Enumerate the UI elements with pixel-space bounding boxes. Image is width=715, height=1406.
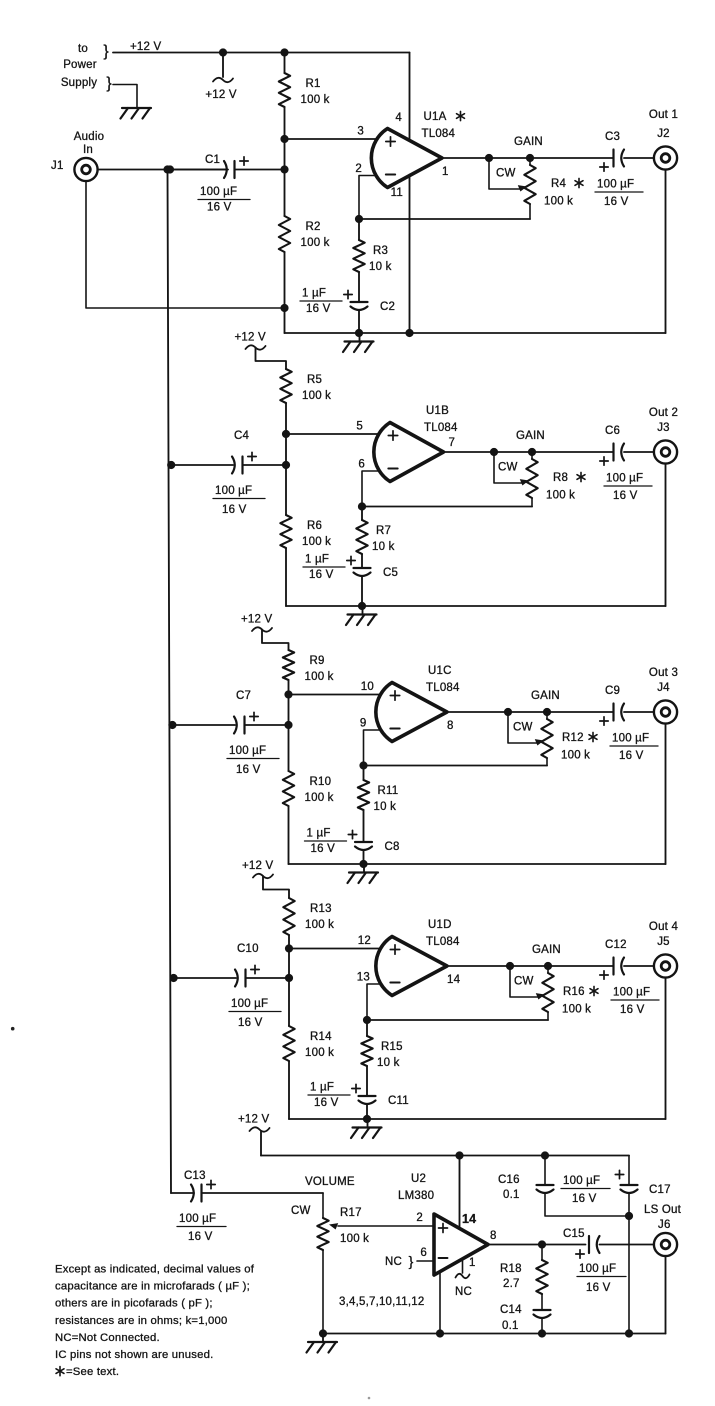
svg-text:J5: J5 [657, 936, 670, 948]
junction: pot top [528, 448, 536, 456]
svg-text:CW: CW [498, 462, 518, 474]
wire: audio input bus (vertical) [168, 170, 172, 1194]
svg-text:R9: R9 [310, 655, 325, 667]
wire: C7 to node [245, 724, 289, 726]
junction: C16/C17 node [625, 1212, 633, 1220]
junction: feedback node [355, 215, 363, 223]
op-amp U1D (TL084) [376, 937, 447, 996]
svg-text:resistances are in ohms; k=1,0: resistances are in ohms; k=1,000 [55, 1315, 228, 1327]
svg-text:10 k: 10 k [374, 801, 397, 813]
+12V tap (stage 4) [253, 874, 273, 878]
junction: C14 at ground rail [538, 1329, 546, 1337]
junction: bus to C4 [167, 461, 175, 469]
svg-text:C2: C2 [380, 301, 395, 313]
svg-text:R7: R7 [376, 525, 391, 537]
svg-text:8: 8 [490, 1230, 497, 1242]
junction: wiper tie [506, 962, 514, 970]
wire: + input of U1C [289, 694, 385, 696]
polarity + of C6 [600, 460, 608, 462]
svg-text:100 k: 100 k [340, 1233, 369, 1245]
svg-text:C5: C5 [383, 567, 398, 579]
svg-text:U1C: U1C [428, 665, 452, 677]
svg-text:100 k: 100 k [544, 196, 573, 208]
svg-text:100 k: 100 k [562, 1004, 591, 1016]
svg-text:R11: R11 [378, 785, 399, 797]
wire: +12V tap to R9 [262, 630, 289, 651]
svg-text:CW: CW [496, 168, 516, 180]
wiper of R12 [508, 712, 537, 743]
svg-text:NC=Not Connected.: NC=Not Connected. [55, 1332, 160, 1344]
svg-text:13: 13 [357, 972, 370, 984]
svg-text:100 µF: 100 µF [215, 485, 252, 497]
svg-text:+12 V: +12 V [241, 614, 273, 626]
wire: J6 return to ground rail [665, 1256, 667, 1334]
junction: R17 at ground rail [319, 1329, 327, 1337]
scan speck [368, 1397, 371, 1400]
svg-text:C12: C12 [605, 939, 627, 951]
jack J6 (LS Out) [654, 1233, 677, 1256]
wire: R1 to + input node [284, 107, 286, 139]
svg-text:3,4,5,7,10,11,12: 3,4,5,7,10,11,12 [339, 1296, 424, 1308]
wire: +12V tap to R5 [256, 348, 287, 370]
svg-text:100 k: 100 k [301, 237, 330, 249]
svg-text:Audio: Audio [74, 131, 104, 143]
wire: + input node down to C7 node [288, 695, 290, 726]
svg-text:NC: NC [385, 1256, 402, 1268]
svg-text:C17: C17 [649, 1184, 671, 1196]
wire: stage ground rail [289, 863, 666, 865]
svg-text:16 V: 16 V [314, 1097, 339, 1109]
svg-text:C10: C10 [237, 943, 259, 955]
wire: feedback node to R3 [358, 219, 360, 240]
op-amp U1A (TL084) [371, 129, 442, 188]
svg-text:C14: C14 [500, 1304, 522, 1316]
junction: bus to C10 [170, 974, 178, 982]
wire: R17 bottom to ground rail [322, 1250, 324, 1334]
svg-text:IC pins not shown are unused.: IC pins not shown are unused. [55, 1349, 213, 1361]
svg-text:Power: Power [63, 59, 97, 71]
svg-text:C9: C9 [605, 685, 620, 697]
wire: R14 down to ground rail [288, 1061, 290, 1119]
+12V tap (stage 3) [252, 627, 272, 631]
wire: ground stub to power supply [113, 85, 137, 108]
svg-text:16 V: 16 V [586, 1282, 611, 1294]
svg-text:Out 1: Out 1 [649, 109, 678, 121]
wire: output to C9 [547, 711, 614, 713]
svg-text:NC: NC [455, 1286, 472, 1298]
capacitor C8 (electrolytic) [355, 841, 372, 843]
wire: output to C12 [548, 965, 614, 967]
resistor R15 10 k [361, 1036, 372, 1066]
junction: C16 at rail [541, 1151, 549, 1159]
wire: - input of U1C [364, 730, 385, 766]
svg-text:In: In [83, 144, 93, 156]
wire: output to C3 [530, 157, 614, 159]
wire: J1 to C1 [97, 169, 228, 171]
wire: jack return [665, 464, 667, 606]
wire: C10 to node [246, 977, 290, 979]
svg-text:100 µF: 100 µF [229, 745, 266, 757]
svg-text:C11: C11 [388, 1095, 409, 1107]
svg-text:Supply: Supply [61, 77, 97, 89]
op-amp + symbol [386, 141, 395, 143]
svg-text:8: 8 [447, 720, 454, 732]
wire: - input of U1D [367, 984, 384, 1020]
svg-text:}: } [409, 1253, 414, 1269]
wire: R13 to + input node [288, 935, 290, 949]
wire: C2 to ground rail [358, 311, 360, 333]
wire: rail to R1 [284, 53, 286, 74]
wire: + input of U1D [289, 948, 384, 950]
wire: bus to C10 [174, 977, 236, 979]
svg-text:R8: R8 [553, 472, 568, 484]
wire: jack return [665, 724, 667, 864]
svg-text:=See text.: =See text. [66, 1366, 119, 1378]
junction: + input node [284, 690, 292, 698]
svg-text:J1: J1 [51, 160, 64, 172]
svg-text:1 µF: 1 µF [310, 1082, 334, 1094]
svg-text:}: } [106, 75, 112, 92]
svg-text:C16: C16 [498, 1174, 520, 1186]
svg-text:capacitance are in microfarads: capacitance are in microfarads ( µF ); [55, 1281, 250, 1293]
junction: C4 node [282, 461, 290, 469]
svg-text:TL084: TL084 [424, 422, 458, 434]
capacitor C6 (electrolytic) [612, 444, 614, 461]
svg-text:R4: R4 [551, 178, 567, 190]
wire: C11 to ground rail [366, 1105, 368, 1119]
polarity + of C7 [250, 716, 258, 718]
pin 1 NC stub [462, 1259, 464, 1273]
svg-text:11: 11 [391, 187, 403, 199]
junction: + input node [280, 135, 288, 143]
wire: - input of U1A [359, 176, 380, 220]
junction: + input node [282, 430, 290, 438]
ground symbol [363, 864, 365, 873]
wire: J1 sleeve down and right to ground node [86, 181, 285, 308]
polarity + of C12 [600, 974, 608, 976]
junction: wiper tie [485, 154, 493, 162]
svg-text:1 µF: 1 µF [305, 554, 329, 566]
svg-text:100 k: 100 k [302, 536, 331, 548]
wire: + input of U1B [286, 433, 382, 435]
wire: U1A output [442, 157, 530, 159]
jack J1 (Audio In) [74, 158, 97, 181]
junction: pot top [526, 154, 534, 162]
wire: C8 to ground rail [363, 851, 365, 864]
wire: C9 to J4 [624, 711, 655, 713]
wire: U2 +12V rail [261, 1155, 629, 1157]
svg-text:10: 10 [361, 681, 374, 693]
svg-text:16 V: 16 V [238, 1017, 263, 1029]
wire: C15 to J6 [600, 1244, 655, 1246]
wire: +12V tap to R13 [263, 876, 289, 898]
svg-text:16 V: 16 V [306, 303, 331, 315]
wire: feedback node to R15 [366, 1020, 368, 1036]
svg-text:16 V: 16 V [311, 843, 336, 855]
junction: pot top [544, 962, 552, 970]
svg-text:R17: R17 [340, 1207, 362, 1219]
svg-text:R1: R1 [306, 78, 321, 90]
wire: output to C6 [532, 451, 614, 453]
svg-text:C15: C15 [563, 1228, 585, 1240]
op-amp - symbol [390, 982, 399, 984]
wire: R3 to C2 [358, 272, 360, 302]
scan speck [11, 1027, 15, 1031]
resistor R3 10 k [353, 240, 364, 272]
ground symbol [359, 333, 361, 342]
+12V tap (stage 2) [246, 345, 266, 349]
jack J2 (Out 1) [654, 146, 677, 169]
capacitor C2 (electrolytic) [351, 301, 368, 303]
wire: node to R2 [284, 170, 286, 217]
svg-text:VOLUME: VOLUME [305, 1176, 355, 1188]
wire: bus corner to C13 [171, 1192, 194, 1194]
svg-text:6: 6 [358, 459, 365, 471]
wire: R6 down to ground rail [285, 548, 287, 606]
U2 + symbol [439, 1227, 448, 1229]
wire: stage ground rail [286, 605, 666, 607]
wire: C16/C17 node down to ground rail [628, 1216, 630, 1334]
wire: U1A pin 4 to +12V rail [409, 53, 411, 141]
capacitor C15 (electrolytic) [588, 1236, 590, 1253]
svg-text:100 k: 100 k [301, 94, 330, 106]
svg-text:16 V: 16 V [620, 1004, 645, 1016]
wire: jack return [665, 170, 667, 333]
wire: bus to C7 [172, 724, 235, 726]
svg-text:4: 4 [395, 112, 402, 124]
capacitor C14 [534, 1309, 551, 1311]
svg-text:R18: R18 [500, 1263, 522, 1275]
junction: feedback node [359, 761, 367, 769]
wire: R16 bottom to feedback [547, 1012, 549, 1020]
svg-text:16 V: 16 V [619, 750, 644, 762]
wire: +12V rail to U1A pin 4 [113, 52, 410, 54]
wire: stage ground rail [289, 1118, 666, 1120]
svg-text:16 V: 16 V [572, 1193, 597, 1205]
svg-text:GAIN: GAIN [532, 944, 561, 956]
svg-text:16 V: 16 V [222, 504, 247, 516]
wire: R5 to + input node [285, 403, 287, 434]
op-amp + symbol [390, 949, 399, 951]
wire: C13 to R17 [202, 1192, 324, 1194]
junction: at ground rail [625, 1329, 633, 1337]
svg-text:16 V: 16 V [309, 569, 334, 581]
svg-text:TL084: TL084 [422, 128, 456, 140]
junction: C2 at ground rail [355, 329, 363, 337]
svg-text:CW: CW [514, 976, 534, 988]
notes text block [55, 1264, 255, 1379]
svg-text:100 k: 100 k [305, 792, 334, 804]
capacitor C10 (electrolytic) [235, 970, 238, 987]
svg-text:1: 1 [469, 1257, 476, 1269]
wire: C17 to junction [628, 1194, 630, 1216]
U2 - symbol [439, 1257, 448, 1259]
wire: down to ground rail [284, 308, 286, 333]
wire: R18 to C14 [541, 1294, 543, 1310]
resistor R5 100 k [280, 369, 291, 403]
svg-text:J3: J3 [657, 422, 670, 434]
svg-text:14: 14 [447, 974, 461, 986]
polarity + of C17 [615, 1174, 623, 1176]
wire: C5 to ground rail [361, 577, 363, 606]
svg-text:R16: R16 [563, 986, 585, 998]
resistor R2 100 k [279, 216, 290, 252]
resistor R18 2.7 [536, 1260, 547, 1294]
potentiometer R16 100 k [547, 966, 549, 973]
svg-text:others are in picofarads ( pF: others are in picofarads ( pF ); [55, 1298, 213, 1310]
wire: stage ground rail [285, 332, 666, 334]
wire: C1 to node [235, 169, 285, 171]
potentiometer R12 100 k [546, 712, 548, 719]
wire: R12 bottom to feedback [546, 758, 548, 766]
wire: + input node down to C10 node [288, 949, 290, 979]
svg-text:C1: C1 [205, 154, 220, 166]
svg-text:U1A: U1A [424, 111, 447, 123]
wire: R10 down to ground rail [288, 806, 290, 864]
wire: feedback from R16 [367, 1019, 548, 1021]
svg-text:9: 9 [360, 718, 367, 730]
wire: + input node down to C4 node [285, 434, 287, 465]
capacitor C9 (electrolytic) [612, 704, 614, 721]
capacitor C16 [544, 1156, 546, 1186]
svg-text:14: 14 [462, 1212, 476, 1226]
svg-text:100 k: 100 k [546, 490, 575, 502]
junction: bus to C1 [166, 165, 174, 173]
capacitor C12 (electrolytic) [612, 958, 614, 975]
svg-text:Except as indicated, decimal v: Except as indicated, decimal values of [55, 1264, 255, 1276]
svg-text:1: 1 [442, 166, 449, 178]
ground (power supply) [122, 107, 151, 109]
wire: + input node down to C1 node [284, 139, 286, 170]
svg-text:100 µF: 100 µF [179, 1213, 216, 1225]
capacitor C11 (electrolytic) [359, 1095, 376, 1097]
junction: +12V tap [219, 48, 227, 56]
polarity + of C4 [248, 456, 256, 458]
junction: C11 at ground rail [363, 1115, 371, 1123]
capacitor C17 (electrolytic) [628, 1156, 630, 1186]
svg-text:C8: C8 [385, 841, 400, 853]
op-amp - symbol [390, 728, 399, 730]
svg-text:+12 V: +12 V [235, 332, 267, 344]
svg-text:R2: R2 [306, 221, 321, 233]
svg-text:TL084: TL084 [426, 936, 460, 948]
svg-text:+12 V: +12 V [242, 860, 274, 872]
capacitor C1 (electrolytic) [224, 161, 227, 178]
polarity + of C2 [344, 294, 352, 296]
svg-text:Out 2: Out 2 [649, 407, 678, 419]
junction: bus to C7 [168, 721, 176, 729]
junction: U2 ground pins at rail [436, 1329, 444, 1337]
wire: node to R6 [285, 465, 287, 515]
svg-text:100 k: 100 k [305, 919, 334, 931]
resistor R1 100 k [279, 73, 290, 107]
polarity + of C5 [347, 560, 355, 562]
junction: C10 node [285, 974, 293, 982]
wire: R8 bottom to feedback [531, 498, 533, 507]
capacitor C7 (electrolytic) [234, 717, 237, 734]
svg-text:U2: U2 [411, 1173, 426, 1185]
op-amp - symbol [388, 468, 397, 470]
svg-text:Out 3: Out 3 [649, 667, 678, 679]
wire: +12V tap to supply rail [260, 1132, 262, 1156]
svg-text:100 µF: 100 µF [613, 987, 650, 999]
wire: output node to R18 [541, 1245, 543, 1261]
wire: bus to C1 [170, 169, 225, 171]
jack J5 (Out 4) [654, 954, 677, 977]
wire: feedback node to R7 [361, 507, 363, 521]
svg-text:CW: CW [513, 722, 533, 734]
wire: U2 ground pins to rail [439, 1272, 441, 1334]
wiper of R8 [494, 452, 522, 483]
svg-text:10 k: 10 k [377, 1057, 400, 1069]
polarity + of C13 [207, 1184, 215, 1186]
wire: C4 to node [243, 464, 287, 466]
svg-text:R15: R15 [381, 1041, 403, 1053]
svg-text:16 V: 16 V [613, 490, 638, 502]
svg-text:GAIN: GAIN [514, 136, 543, 148]
svg-text:100 µF: 100 µF [231, 998, 268, 1010]
wire: feedback node to R11 [363, 766, 365, 781]
potentiometer R17 100 k [322, 1193, 324, 1218]
junction: pin 11 at ground rail [405, 329, 413, 337]
svg-text:LS Out: LS Out [644, 1204, 682, 1216]
junction: C7 node [284, 721, 292, 729]
wiper of R17 to U2 pin 2 [338, 1225, 434, 1227]
svg-text:100 µF: 100 µF [606, 473, 643, 485]
polarity + of C1 [240, 160, 248, 162]
junction: pin 14 at rail [455, 1151, 463, 1159]
svg-text:C7: C7 [236, 690, 251, 702]
wire: + input of U1A [285, 138, 380, 140]
svg-text:100 µF: 100 µF [579, 1263, 616, 1275]
svg-text:+12 V: +12 V [238, 1114, 270, 1126]
ground symbol [367, 1119, 369, 1128]
svg-text:to: to [78, 43, 88, 55]
wire: U1A pin 11 to ground rail [409, 175, 411, 334]
svg-text:10 k: 10 k [372, 541, 395, 553]
junction: C5 at ground rail [358, 602, 366, 610]
svg-text:R6: R6 [307, 520, 322, 532]
polarity + of C15 [576, 1253, 584, 1255]
resistor R7 10 k [356, 520, 367, 554]
svg-text:LM380: LM380 [398, 1190, 434, 1202]
junction: J1 return [280, 304, 288, 312]
pin 6 NC stub [417, 1260, 434, 1262]
jack J3 (Out 2) [654, 440, 677, 463]
svg-text:0.1: 0.1 [503, 1189, 520, 1201]
wire: R2 to ground rail [284, 252, 286, 308]
svg-text:7: 7 [449, 437, 456, 449]
svg-text:1 µF: 1 µF [302, 288, 326, 300]
resistor R10 100 k [283, 771, 294, 806]
svg-text:100 µF: 100 µF [612, 733, 649, 745]
svg-text:100 µF: 100 µF [563, 1175, 600, 1187]
capacitor C4 (electrolytic) [232, 457, 235, 474]
capacitor C3 (electrolytic) [612, 150, 614, 167]
op-amp U2 (LM380) [434, 1214, 488, 1275]
polarity + of C3 [600, 166, 608, 168]
svg-text:}: } [103, 43, 109, 60]
potentiometer R4 100 k [529, 158, 531, 165]
svg-text:C6: C6 [605, 425, 620, 437]
wire: C14 to ground rail [541, 1319, 543, 1334]
capacitor C13 (electrolytic) [191, 1185, 194, 1202]
wire: U2 output [488, 1244, 586, 1246]
svg-text:GAIN: GAIN [516, 430, 545, 442]
ground symbol [362, 606, 364, 615]
wire: R9 to + input node [288, 680, 290, 695]
junction: C8 at ground rail [359, 860, 367, 868]
